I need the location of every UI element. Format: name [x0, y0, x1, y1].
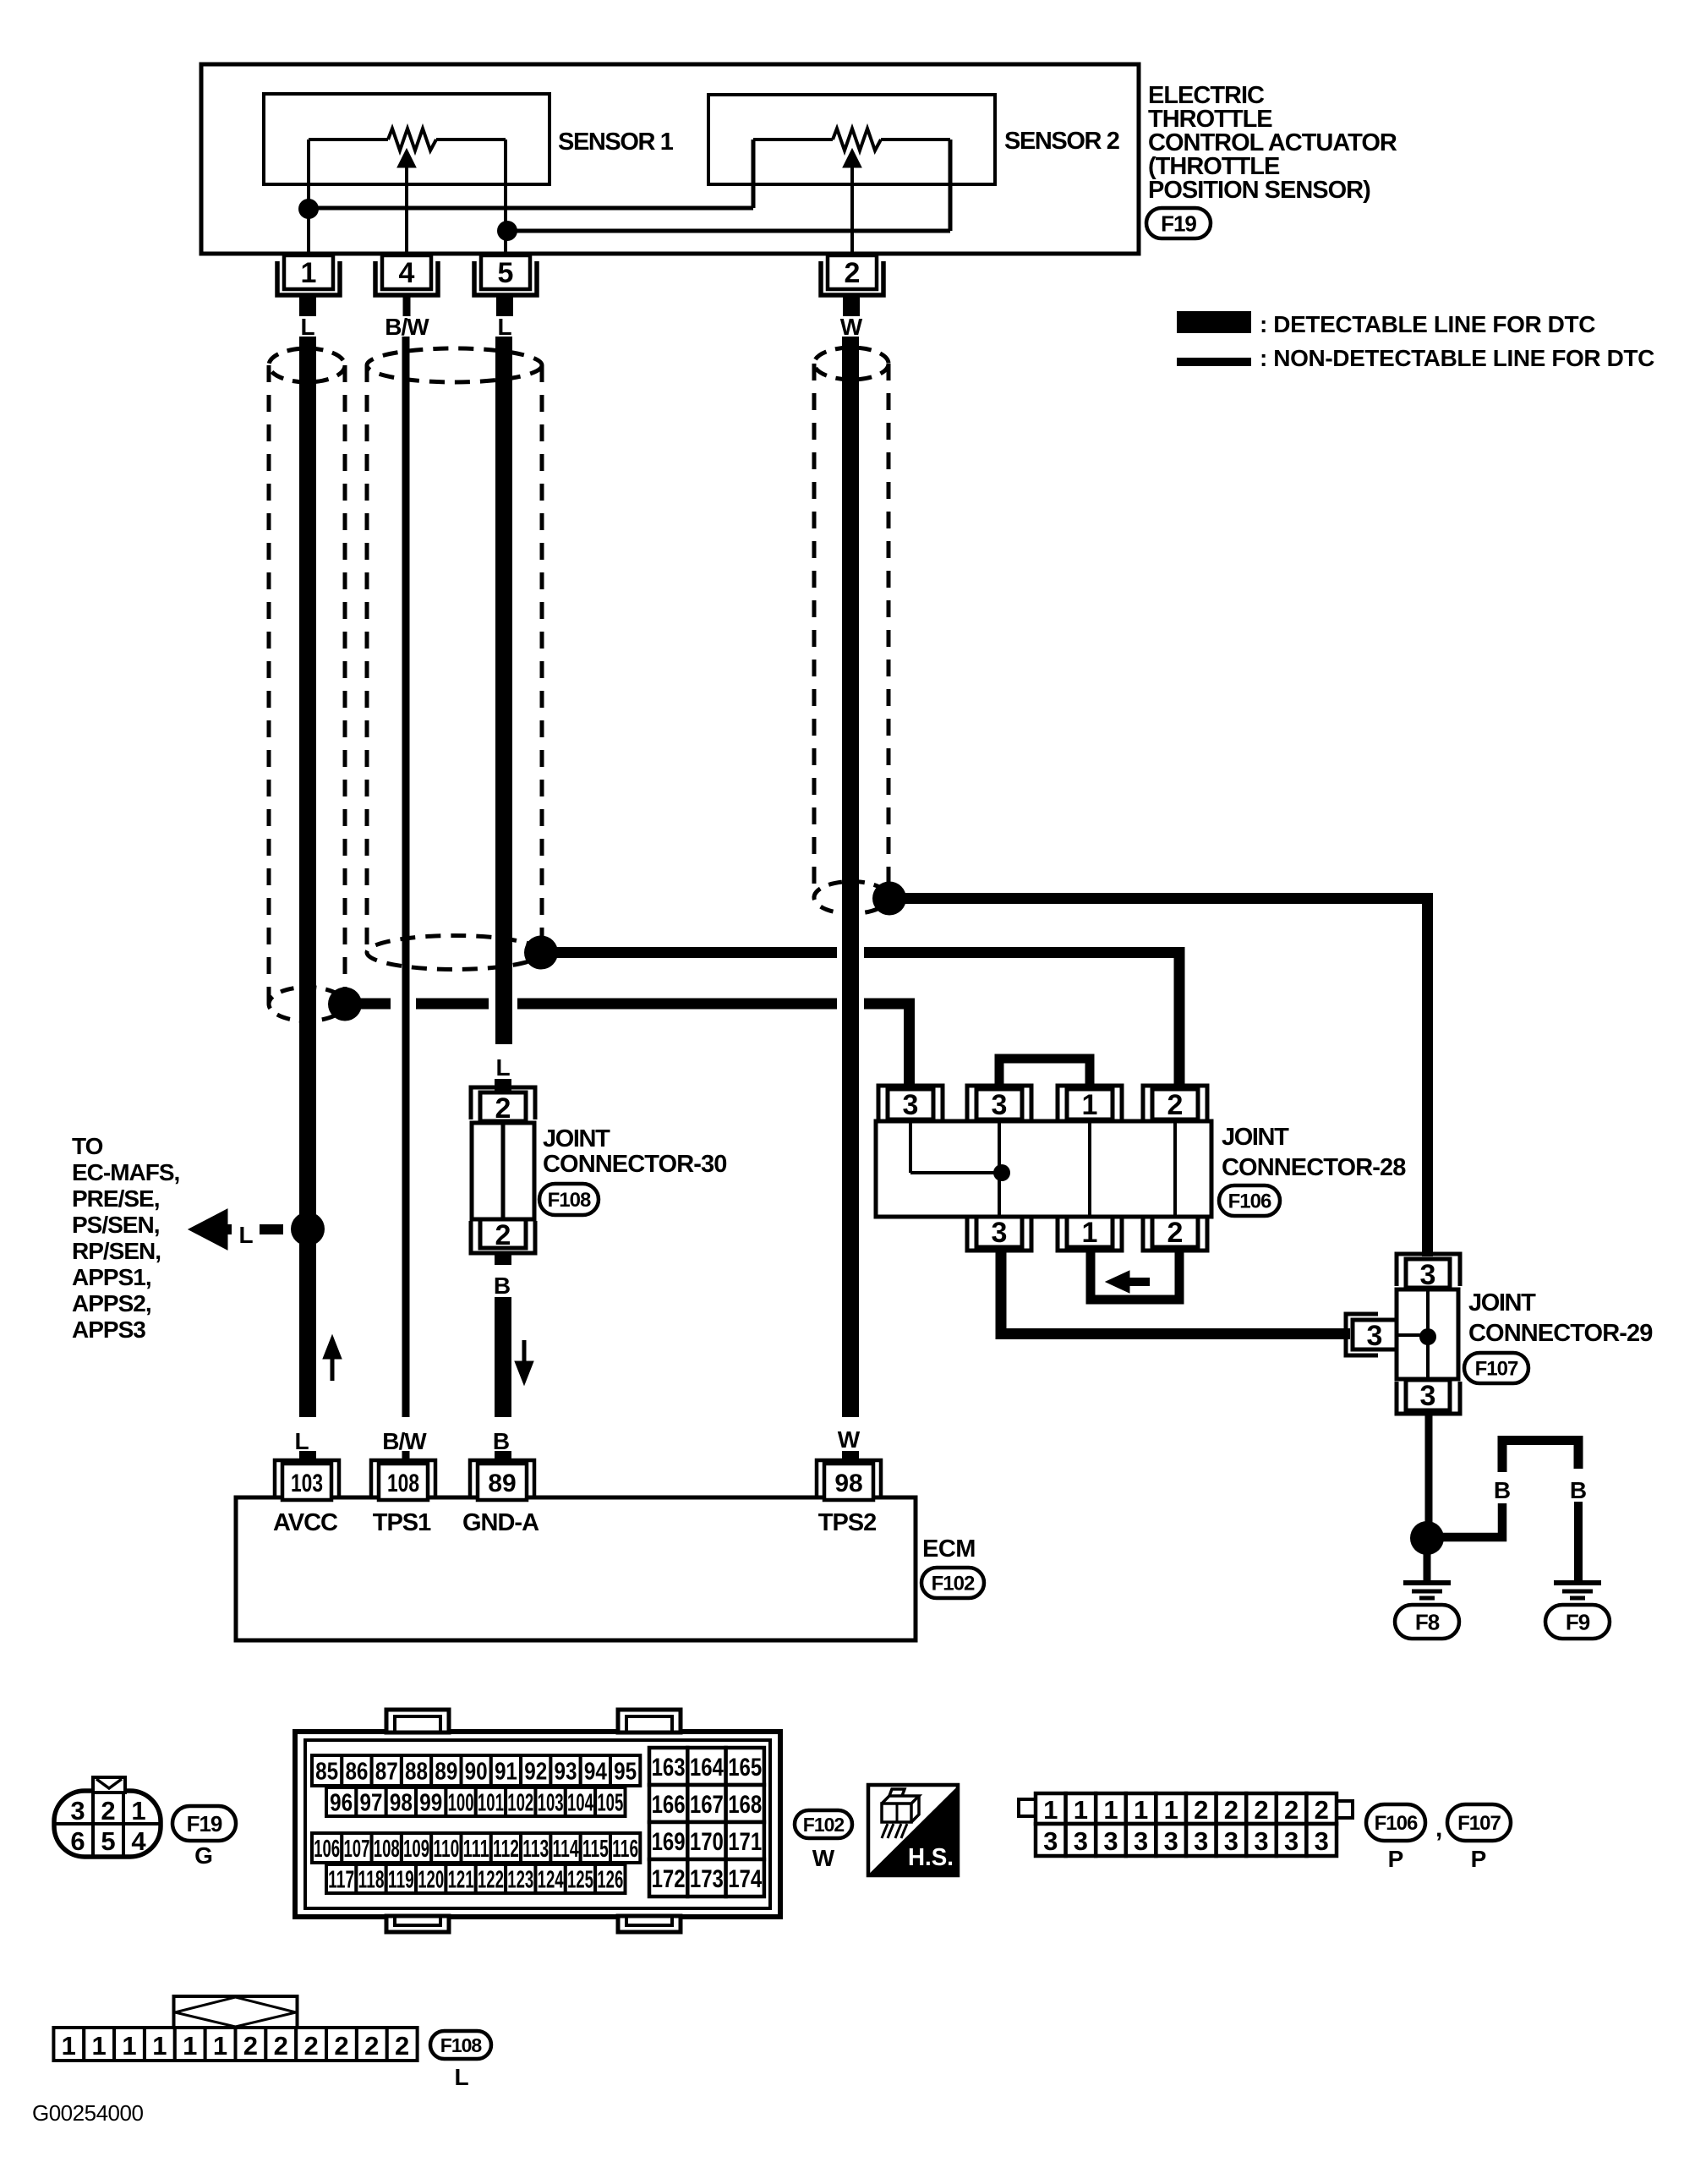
svg-text:168: 168 — [728, 1791, 762, 1819]
svg-text:91: 91 — [495, 1758, 517, 1785]
svg-text:JOINT: JOINT — [1468, 1289, 1536, 1316]
svg-text:3: 3 — [1224, 1826, 1238, 1856]
svg-text:TO: TO — [72, 1133, 103, 1159]
svg-text:B: B — [1494, 1477, 1511, 1503]
svg-text:2: 2 — [334, 2031, 348, 2061]
svg-text:F107: F107 — [1457, 1812, 1501, 1835]
svg-text:107: 107 — [343, 1836, 369, 1863]
svg-text:87: 87 — [375, 1758, 398, 1785]
svg-text:L: L — [495, 1054, 510, 1081]
svg-text:2: 2 — [101, 1796, 115, 1825]
svg-text:H.S.: H.S. — [908, 1844, 954, 1871]
svg-text:RP/SEN,: RP/SEN, — [72, 1238, 161, 1264]
svg-text:2: 2 — [243, 2031, 258, 2061]
svg-text:2: 2 — [1194, 1795, 1208, 1825]
svg-text:3: 3 — [1420, 1259, 1436, 1291]
svg-text:122: 122 — [478, 1866, 504, 1893]
svg-text:3: 3 — [1315, 1826, 1329, 1856]
svg-text:TPS1: TPS1 — [373, 1509, 431, 1536]
svg-text:TPS2: TPS2 — [818, 1509, 877, 1536]
svg-text:AVCC: AVCC — [273, 1509, 338, 1536]
svg-text:L: L — [300, 314, 314, 340]
svg-text:97: 97 — [360, 1789, 383, 1816]
svg-text:3: 3 — [903, 1089, 919, 1121]
svg-text:112: 112 — [493, 1836, 519, 1863]
svg-text:GND-A: GND-A — [462, 1509, 539, 1536]
svg-text:: DETECTABLE LINE FOR DTC: : DETECTABLE LINE FOR DTC — [1260, 311, 1595, 337]
svg-text:89: 89 — [435, 1758, 457, 1785]
svg-text:APPS3: APPS3 — [72, 1316, 145, 1343]
svg-text:: NON-DETECTABLE LINE FOR DTC: : NON-DETECTABLE LINE FOR DTC — [1260, 345, 1654, 371]
svg-text:W: W — [812, 1845, 835, 1871]
svg-text:B: B — [493, 1428, 510, 1454]
svg-text:119: 119 — [388, 1866, 414, 1893]
svg-text:111: 111 — [463, 1836, 489, 1863]
svg-text:167: 167 — [690, 1791, 724, 1819]
svg-text:1: 1 — [131, 1796, 145, 1825]
svg-text:120: 120 — [418, 1866, 444, 1893]
svg-text:SENSOR 2: SENSOR 2 — [1004, 128, 1119, 155]
svg-text:171: 171 — [728, 1828, 762, 1856]
svg-text:1: 1 — [152, 2031, 167, 2061]
svg-text:89: 89 — [488, 1470, 516, 1497]
svg-text:1: 1 — [1082, 1217, 1098, 1249]
svg-text:EC-MAFS,: EC-MAFS, — [72, 1159, 179, 1185]
svg-text:2: 2 — [1315, 1795, 1329, 1825]
svg-text:CONNECTOR-29: CONNECTOR-29 — [1468, 1320, 1653, 1347]
svg-text:F19: F19 — [1161, 211, 1196, 236]
svg-text:3: 3 — [1134, 1826, 1148, 1856]
svg-text:3: 3 — [1103, 1826, 1118, 1856]
svg-text:3: 3 — [1367, 1320, 1383, 1352]
svg-text:96: 96 — [330, 1789, 353, 1816]
svg-text:F108: F108 — [548, 1189, 591, 1212]
svg-text:F102: F102 — [932, 1573, 975, 1596]
svg-text:108: 108 — [387, 1470, 419, 1497]
svg-text:125: 125 — [567, 1866, 593, 1893]
svg-text:2: 2 — [303, 2031, 318, 2061]
svg-text:1: 1 — [62, 2031, 76, 2061]
svg-text:126: 126 — [597, 1866, 623, 1893]
svg-text:F9: F9 — [1566, 1609, 1590, 1634]
svg-text:3: 3 — [992, 1089, 1008, 1121]
svg-text:174: 174 — [728, 1865, 762, 1893]
svg-text:APPS2,: APPS2, — [72, 1290, 151, 1316]
svg-text:169: 169 — [652, 1828, 686, 1856]
svg-text:F8: F8 — [1415, 1609, 1440, 1634]
svg-text:99: 99 — [419, 1789, 442, 1816]
svg-text:W: W — [840, 314, 863, 340]
svg-text:165: 165 — [728, 1754, 762, 1782]
svg-text:P: P — [1388, 1846, 1404, 1872]
svg-text:1: 1 — [122, 2031, 136, 2061]
svg-text:F102: F102 — [803, 1814, 845, 1836]
svg-text:CONNECTOR-28: CONNECTOR-28 — [1222, 1154, 1406, 1181]
svg-text:P: P — [1471, 1846, 1487, 1872]
svg-text:121: 121 — [448, 1866, 474, 1893]
svg-text:101: 101 — [478, 1789, 504, 1816]
svg-text:116: 116 — [612, 1836, 638, 1863]
svg-text:164: 164 — [690, 1754, 724, 1782]
svg-text:L: L — [238, 1222, 253, 1248]
svg-text:2: 2 — [495, 1092, 511, 1125]
svg-text:115: 115 — [582, 1836, 609, 1863]
svg-text:PS/SEN,: PS/SEN, — [72, 1212, 159, 1238]
svg-text:2: 2 — [1167, 1089, 1184, 1121]
svg-text:98: 98 — [834, 1470, 862, 1497]
svg-text:1: 1 — [1074, 1795, 1088, 1825]
svg-text:92: 92 — [524, 1758, 547, 1785]
svg-text:3: 3 — [1074, 1826, 1088, 1856]
svg-text:3: 3 — [1420, 1380, 1436, 1412]
svg-text:100: 100 — [448, 1789, 474, 1816]
svg-text:L: L — [454, 2064, 468, 2090]
svg-text:103: 103 — [538, 1789, 564, 1816]
svg-text:1: 1 — [92, 2031, 107, 2061]
svg-text:114: 114 — [553, 1836, 579, 1863]
svg-text:170: 170 — [690, 1828, 724, 1856]
svg-text:85: 85 — [315, 1758, 338, 1785]
svg-text:B: B — [1570, 1477, 1587, 1503]
svg-text:2: 2 — [1167, 1217, 1184, 1249]
svg-text:106: 106 — [314, 1836, 340, 1863]
svg-text:W: W — [838, 1426, 861, 1453]
svg-text:2: 2 — [1254, 1795, 1268, 1825]
svg-text:98: 98 — [390, 1789, 413, 1816]
svg-text:163: 163 — [652, 1754, 686, 1782]
svg-text:1: 1 — [301, 257, 317, 289]
svg-text:3: 3 — [1284, 1826, 1299, 1856]
svg-text:105: 105 — [597, 1789, 623, 1816]
svg-text:JOINT: JOINT — [543, 1125, 610, 1152]
svg-text:124: 124 — [538, 1866, 564, 1893]
svg-text:2: 2 — [395, 2031, 409, 2061]
svg-text:5: 5 — [101, 1826, 115, 1856]
svg-text:1: 1 — [1134, 1795, 1148, 1825]
svg-text:1: 1 — [183, 2031, 197, 2061]
svg-text:5: 5 — [498, 257, 514, 289]
svg-text:172: 172 — [652, 1865, 686, 1893]
svg-text:F106: F106 — [1375, 1812, 1418, 1835]
svg-text:F19: F19 — [187, 1811, 222, 1836]
svg-text:,: , — [1435, 1815, 1442, 1842]
svg-text:B/W: B/W — [382, 1428, 427, 1454]
svg-text:3: 3 — [1043, 1826, 1058, 1856]
svg-text:118: 118 — [358, 1866, 385, 1893]
svg-text:3: 3 — [992, 1217, 1008, 1249]
svg-text:2: 2 — [364, 2031, 379, 2061]
svg-text:4: 4 — [131, 1826, 146, 1856]
svg-text:CONNECTOR-30: CONNECTOR-30 — [543, 1151, 726, 1178]
svg-text:123: 123 — [507, 1866, 533, 1893]
svg-text:PRE/SE,: PRE/SE, — [72, 1185, 159, 1212]
svg-text:6: 6 — [70, 1826, 85, 1856]
svg-text:F106: F106 — [1228, 1191, 1271, 1213]
svg-text:G: G — [194, 1842, 213, 1869]
svg-text:1: 1 — [1164, 1795, 1178, 1825]
svg-text:94: 94 — [584, 1758, 607, 1785]
svg-text:166: 166 — [652, 1791, 686, 1819]
svg-text:104: 104 — [567, 1789, 593, 1816]
svg-text:1: 1 — [1043, 1795, 1058, 1825]
svg-text:POSITION SENSOR): POSITION SENSOR) — [1148, 177, 1370, 204]
svg-text:108: 108 — [374, 1836, 400, 1863]
svg-text:1: 1 — [1103, 1795, 1118, 1825]
svg-text:2: 2 — [1284, 1795, 1299, 1825]
svg-text:G00254000: G00254000 — [32, 2100, 143, 2126]
svg-text:B: B — [494, 1273, 511, 1299]
svg-text:F107: F107 — [1475, 1358, 1518, 1381]
svg-text:109: 109 — [403, 1836, 429, 1863]
svg-text:3: 3 — [70, 1796, 85, 1825]
svg-text:2: 2 — [845, 257, 861, 289]
svg-text:L: L — [294, 1428, 309, 1454]
svg-text:B/W: B/W — [385, 314, 429, 340]
svg-text:86: 86 — [345, 1758, 368, 1785]
svg-text:JOINT: JOINT — [1222, 1124, 1289, 1151]
svg-text:3: 3 — [1254, 1826, 1268, 1856]
svg-text:3: 3 — [1164, 1826, 1178, 1856]
svg-text:SENSOR 1: SENSOR 1 — [558, 129, 674, 156]
svg-text:95: 95 — [614, 1758, 637, 1785]
svg-text:1: 1 — [1082, 1089, 1098, 1121]
svg-text:88: 88 — [405, 1758, 428, 1785]
svg-text:113: 113 — [522, 1836, 549, 1863]
svg-text:90: 90 — [465, 1758, 488, 1785]
svg-text:93: 93 — [555, 1758, 577, 1785]
svg-text:173: 173 — [690, 1865, 724, 1893]
svg-text:103: 103 — [291, 1470, 323, 1497]
svg-text:F108: F108 — [440, 2034, 483, 2056]
svg-text:102: 102 — [507, 1789, 533, 1816]
svg-text:ECM: ECM — [922, 1535, 976, 1563]
svg-text:2: 2 — [495, 1219, 511, 1251]
svg-text:110: 110 — [433, 1836, 459, 1863]
svg-text:4: 4 — [399, 257, 415, 289]
svg-text:1: 1 — [213, 2031, 227, 2061]
svg-text:3: 3 — [1194, 1826, 1208, 1856]
svg-text:APPS1,: APPS1, — [72, 1264, 151, 1290]
svg-text:117: 117 — [328, 1866, 354, 1893]
svg-text:2: 2 — [274, 2031, 288, 2061]
svg-text:2: 2 — [1224, 1795, 1238, 1825]
svg-text:L: L — [497, 314, 511, 340]
